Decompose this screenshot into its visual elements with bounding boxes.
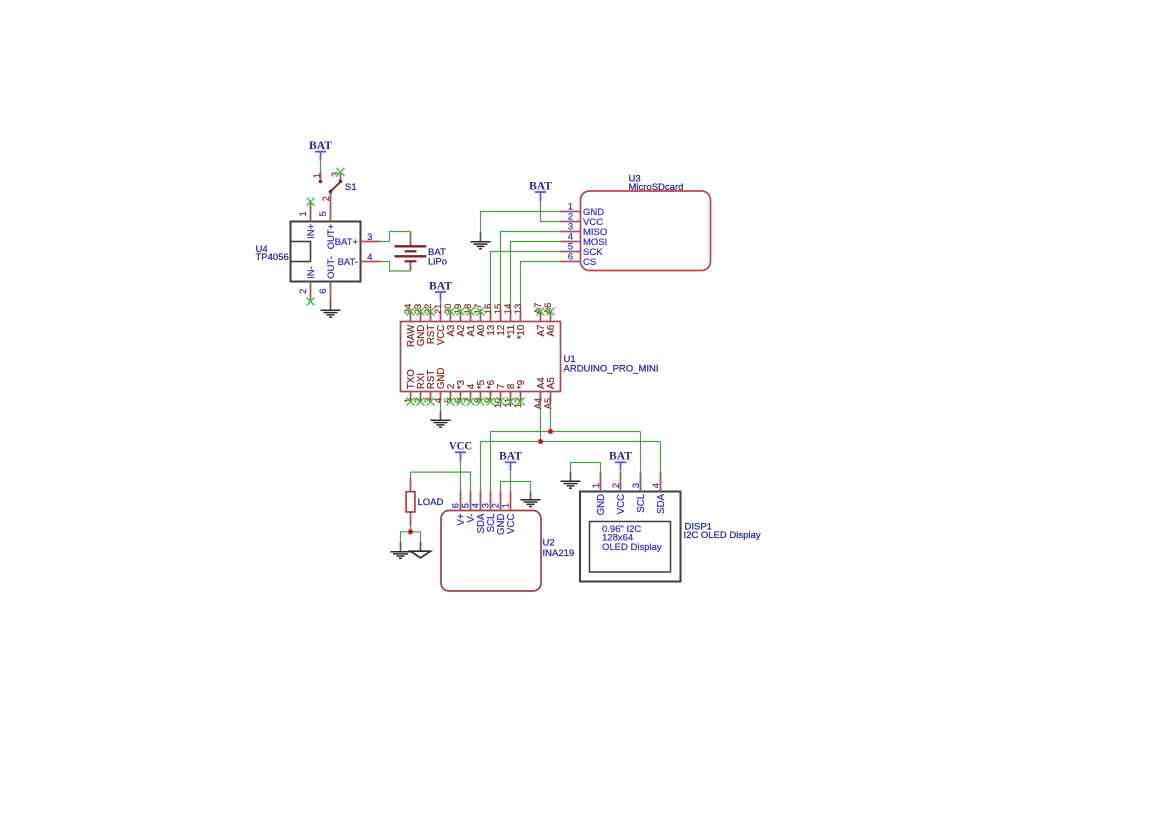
wire A5 to SCL rail: [550, 402, 552, 432]
svg-text:INA219: INA219: [543, 548, 575, 559]
svg-text:2: 2: [321, 196, 331, 201]
svg-text:SCL: SCL: [636, 493, 647, 512]
power flag BAT (S1): [309, 139, 332, 161]
wire LOAD top to U2 V-: [411, 472, 471, 490]
svg-text:BAT: BAT: [529, 179, 552, 192]
svg-text:BAT-: BAT-: [338, 257, 358, 268]
svg-text:BAT: BAT: [609, 450, 632, 463]
wire U4 BAT- to battery -: [381, 262, 411, 272]
SD card module U3 MicroSDcard: [561, 174, 711, 271]
charger module U4 TP4056: [256, 202, 381, 302]
svg-text:A6: A6: [546, 325, 557, 337]
svg-text:U2: U2: [543, 538, 555, 549]
wire DISP1 GND to ground: [571, 463, 601, 473]
wire SCL rail: [491, 431, 641, 433]
wire SDA rail: [481, 441, 661, 443]
wire SCL down to U2: [490, 432, 492, 491]
power flag BAT (U2 VCC): [499, 450, 522, 472]
no-connect X at U1 pin 6: [457, 398, 465, 406]
power flag VCC (U2 V+): [449, 440, 472, 462]
no-connect X at U1 pin 17: [477, 308, 485, 316]
svg-text:5: 5: [461, 503, 471, 508]
power flag BAT (U3 VCC): [529, 179, 552, 201]
wire SCK U3 to U1 pin16: [491, 252, 561, 312]
svg-text:A5: A5: [543, 398, 553, 409]
no-connect X at U1 pin 1: [407, 398, 415, 406]
svg-text:5: 5: [318, 211, 328, 216]
wire VCC to U2 V+: [460, 462, 462, 491]
no-connect X at U1 pin 7: [467, 398, 475, 406]
microcontroller U1 ARDUINO_PRO_MINI: [401, 303, 659, 409]
power flag BAT (U1 VCC): [429, 279, 452, 301]
svg-text:SDA: SDA: [656, 493, 667, 513]
svg-text:LOAD: LOAD: [418, 497, 444, 508]
wire BAT to U1 VCC pin21: [440, 302, 442, 312]
no-connect X at U4 pin 2: [307, 298, 315, 306]
svg-text:VCC: VCC: [616, 494, 627, 514]
wire BAT to U3 VCC: [541, 201, 561, 221]
svg-text:16: 16: [483, 304, 493, 314]
svg-text:15: 15: [493, 304, 503, 314]
ground at U1 pin4: [431, 411, 451, 427]
no-connect X at U1 pin 3: [427, 398, 435, 406]
svg-text:A4: A4: [533, 398, 543, 409]
svg-text:1: 1: [591, 483, 601, 488]
no-connect X at U1 pin A6: [547, 308, 555, 316]
ground at LOAD (triangle): [411, 542, 431, 558]
junction A4/SDA: [538, 439, 543, 444]
svg-text:VCC: VCC: [506, 514, 517, 534]
svg-text:6: 6: [451, 503, 461, 508]
ground at DISP1 GND: [561, 472, 581, 489]
svg-text:ARDUINO_PRO_MINI: ARDUINO_PRO_MINI: [564, 363, 659, 374]
svg-text:VCC: VCC: [449, 440, 472, 453]
svg-text:2: 2: [298, 289, 308, 294]
svg-text:BAT: BAT: [429, 279, 452, 292]
wire SDA down to DISP1: [660, 442, 662, 473]
no-connect X at U1 pin 18: [467, 308, 475, 316]
power flag BAT (DISP1 VCC): [609, 450, 632, 472]
wire MOSI U3 to U1 pin14: [511, 242, 561, 312]
no-connect X at U1 pin 23: [417, 308, 425, 316]
wire U1 pin4 GND to ground: [440, 402, 442, 412]
no-connect X at U4 pin 1: [307, 198, 315, 206]
svg-text:6: 6: [568, 252, 573, 262]
no-connect X at U1 pin 8: [477, 398, 485, 406]
svg-text:13: 13: [513, 304, 523, 314]
svg-text:3: 3: [631, 483, 641, 488]
no-connect X at U1 pin 19: [457, 308, 465, 316]
no-connect X at U1 pin 11: [507, 398, 515, 406]
ground at U2 GND: [521, 493, 541, 507]
svg-text:6: 6: [318, 289, 328, 294]
svg-text:4: 4: [568, 232, 573, 242]
svg-text:1: 1: [501, 503, 511, 508]
no-connect X at U1 pin A7: [537, 308, 545, 316]
no-connect X at U1 pin 24: [407, 308, 415, 316]
svg-text:BAT+: BAT+: [335, 237, 359, 248]
svg-text:5: 5: [568, 242, 573, 252]
svg-text:IN-: IN-: [306, 266, 317, 279]
ground at U4 pin6: [321, 302, 341, 318]
svg-text:OLED Display: OLED Display: [602, 542, 662, 553]
svg-text:2: 2: [491, 503, 501, 508]
svg-text:3: 3: [568, 222, 573, 232]
svg-text:BAT: BAT: [499, 450, 522, 463]
ground at U3 GND: [471, 233, 491, 249]
svg-text:3: 3: [481, 503, 491, 508]
no-connect X at U1 pin 20: [447, 308, 455, 316]
no-connect X at U1 pin 22: [427, 308, 435, 316]
svg-text:CS: CS: [583, 257, 596, 268]
svg-text:IN+: IN+: [306, 223, 317, 239]
no-connect X at U1 pin 10: [497, 398, 505, 406]
switch S1: [312, 172, 357, 202]
no-connect X at U1 pin 2: [417, 398, 425, 406]
svg-text:2: 2: [568, 212, 573, 222]
svg-text:4: 4: [471, 503, 481, 508]
wire junction to grounds: [401, 532, 421, 542]
wire A4 to SDA rail: [540, 402, 542, 442]
svg-text:*10: *10: [516, 324, 527, 339]
wire BAT to U2 VCC: [510, 472, 512, 490]
wire U4 BAT+ to battery +: [381, 232, 411, 242]
current sensor U2 INA219: [441, 491, 574, 592]
svg-text:1: 1: [312, 173, 322, 178]
wire U2 GND to ground: [501, 482, 531, 495]
ground at LOAD (bars): [391, 542, 411, 558]
svg-text:TP4056: TP4056: [256, 252, 289, 263]
svg-text:1: 1: [298, 211, 308, 216]
junction LOAD/ground: [408, 529, 413, 534]
wire U3 GND to ground: [481, 212, 561, 233]
no-connect X at U1 pin 9: [487, 398, 495, 406]
svg-text:2: 2: [611, 483, 621, 488]
resistor LOAD: [406, 479, 443, 527]
svg-text:1: 1: [568, 202, 573, 212]
svg-text:S1: S1: [345, 182, 357, 193]
wire SCL down to DISP1: [640, 432, 642, 473]
svg-text:14: 14: [503, 304, 513, 314]
wire BAT to S1 pin1: [320, 161, 322, 172]
junction A5/SCL: [548, 429, 553, 434]
wire CS U3 to U1 pin13: [521, 262, 561, 312]
svg-text:OUT-: OUT-: [326, 256, 337, 279]
svg-text:GND: GND: [596, 494, 607, 516]
svg-text:21: 21: [433, 304, 443, 314]
svg-text:BAT: BAT: [309, 139, 332, 152]
no-connect X at U1 pin 5: [447, 398, 455, 406]
svg-text:*9: *9: [516, 380, 527, 389]
no-connect X at S1 pin 3: [337, 168, 345, 176]
svg-text:LiPo: LiPo: [428, 256, 447, 267]
svg-text:4: 4: [367, 252, 372, 262]
svg-text:4: 4: [651, 483, 661, 488]
svg-text:I2C OLED Display: I2C OLED Display: [684, 530, 761, 541]
display DISP1 I2C OLED: [580, 472, 761, 581]
wire LOAD bottom to junction: [410, 526, 412, 532]
wire MISO U3 to U1 pin15: [501, 232, 561, 312]
svg-text:A5: A5: [546, 377, 557, 389]
svg-text:MicroSDcard: MicroSDcard: [629, 182, 684, 193]
no-connect X at U1 pin 12: [517, 398, 525, 406]
wire SDA down to U2: [480, 442, 482, 491]
svg-text:3: 3: [367, 232, 372, 242]
battery BAT LiPo: [395, 232, 448, 272]
